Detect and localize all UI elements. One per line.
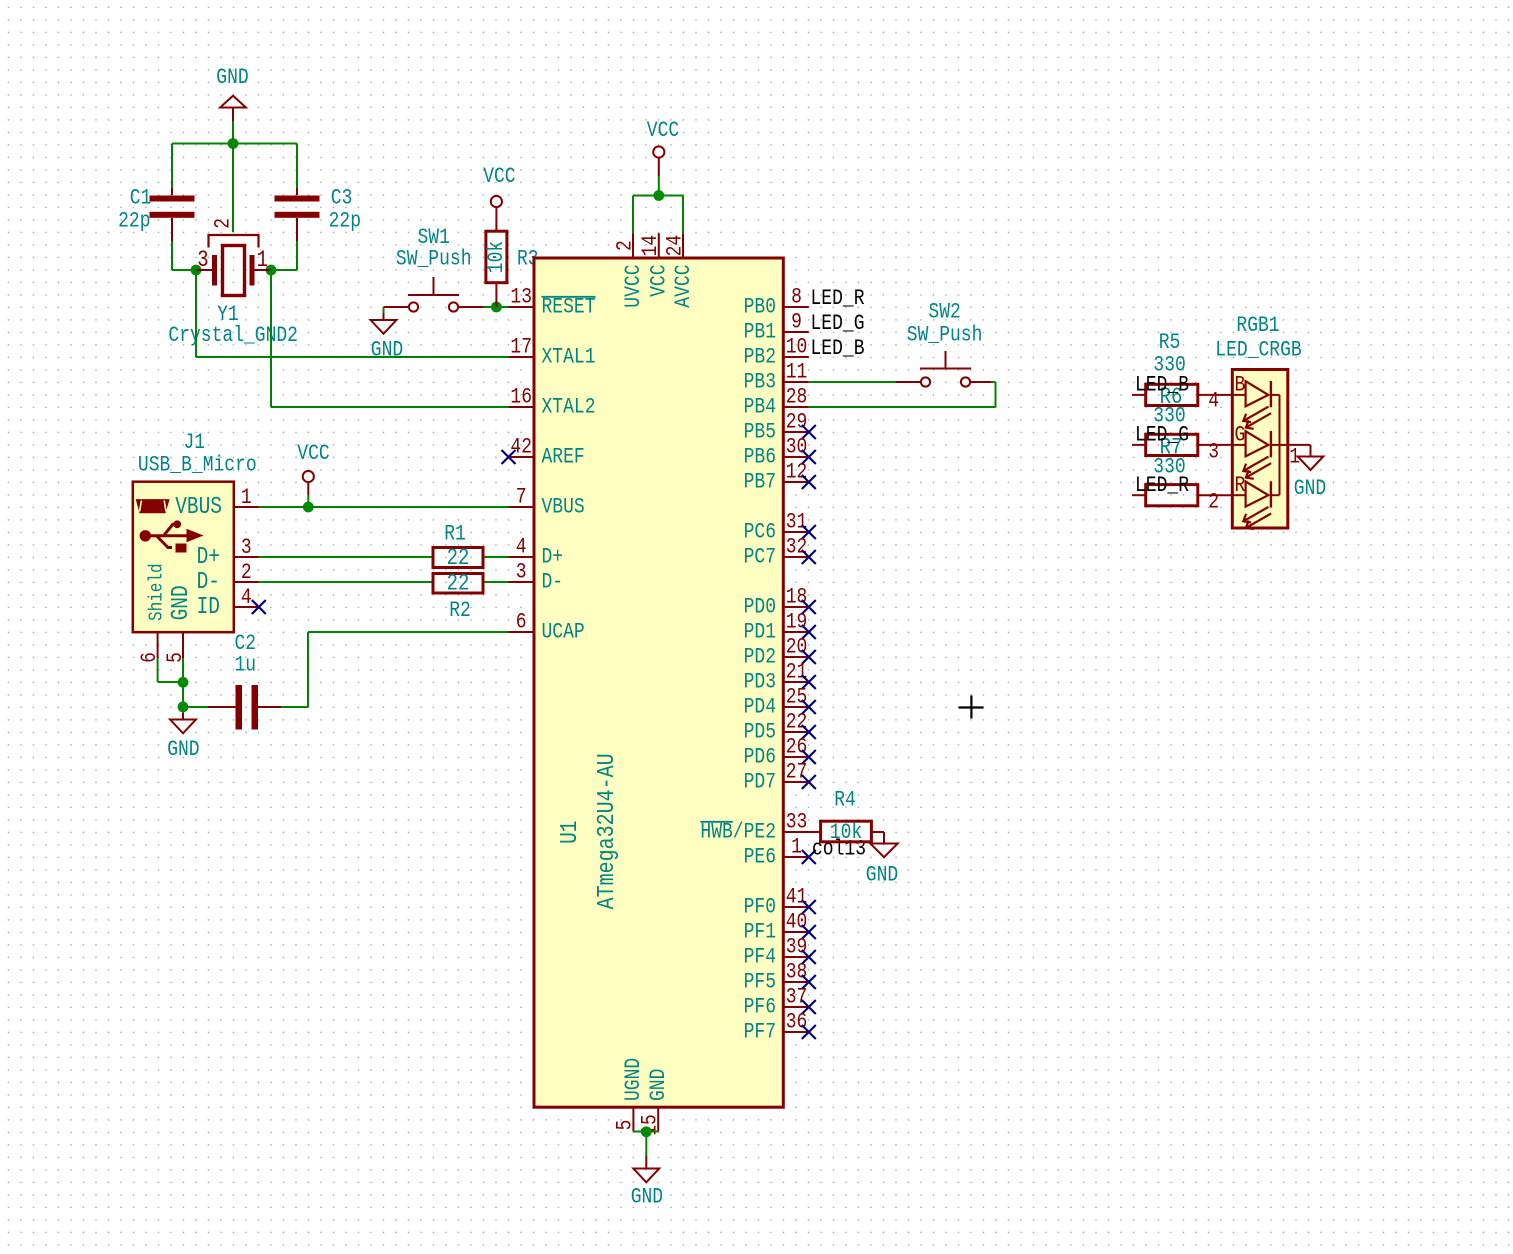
svg-text:17: 17 xyxy=(510,335,532,360)
svg-text:1: 1 xyxy=(257,247,268,273)
svg-text:PD4: PD4 xyxy=(744,695,776,720)
svg-text:2: 2 xyxy=(1208,490,1219,515)
svg-text:GND: GND xyxy=(168,585,195,620)
svg-text:R1: R1 xyxy=(444,522,466,547)
svg-text:3: 3 xyxy=(197,247,208,273)
svg-text:PB7: PB7 xyxy=(744,470,776,495)
svg-text:22: 22 xyxy=(447,545,470,571)
svg-text:SW_Push: SW_Push xyxy=(396,247,472,272)
svg-text:PD5: PD5 xyxy=(744,720,776,745)
svg-text:D-: D- xyxy=(542,570,564,595)
svg-text:28: 28 xyxy=(786,385,808,410)
svg-text:PD6: PD6 xyxy=(744,745,776,770)
svg-text:PD0: PD0 xyxy=(744,595,776,620)
svg-text:GND: GND xyxy=(646,1069,671,1101)
svg-text:RESET: RESET xyxy=(542,295,596,320)
svg-text:2: 2 xyxy=(241,560,252,585)
svg-text:UCAP: UCAP xyxy=(542,620,585,645)
svg-text:VCC: VCC xyxy=(647,118,679,143)
svg-text:GND: GND xyxy=(167,737,199,762)
svg-text:11: 11 xyxy=(786,360,808,385)
svg-text:PB1: PB1 xyxy=(744,320,776,345)
svg-text:GND: GND xyxy=(1294,476,1326,501)
svg-text:PD3: PD3 xyxy=(744,670,776,695)
svg-text:26: 26 xyxy=(786,735,808,760)
svg-text:3: 3 xyxy=(241,535,252,560)
svg-text:20: 20 xyxy=(786,635,808,660)
svg-text:LED_B: LED_B xyxy=(1135,373,1189,398)
svg-text:22p: 22p xyxy=(118,209,150,234)
svg-text:RGB1: RGB1 xyxy=(1236,313,1279,338)
svg-text:XTAL1: XTAL1 xyxy=(542,345,596,370)
svg-text:7: 7 xyxy=(516,485,527,510)
svg-text:PC7: PC7 xyxy=(744,545,776,570)
svg-text:22: 22 xyxy=(447,571,470,597)
svg-text:R5: R5 xyxy=(1159,330,1181,355)
svg-text:10k: 10k xyxy=(484,241,509,273)
svg-text:27: 27 xyxy=(786,760,808,785)
svg-text:2: 2 xyxy=(612,240,637,251)
svg-text:21: 21 xyxy=(786,660,808,685)
svg-text:PF5: PF5 xyxy=(744,970,776,995)
svg-text:PF7: PF7 xyxy=(744,1020,776,1045)
svg-text:5: 5 xyxy=(163,652,188,663)
svg-text:B: B xyxy=(1235,373,1246,398)
svg-text:4: 4 xyxy=(241,585,252,610)
svg-text:D+: D+ xyxy=(197,544,220,571)
svg-text:4: 4 xyxy=(1208,389,1219,414)
svg-text:1: 1 xyxy=(791,835,802,860)
svg-text:PB2: PB2 xyxy=(744,345,776,370)
svg-text:USB_B_Micro: USB_B_Micro xyxy=(138,453,257,478)
svg-text:38: 38 xyxy=(786,960,808,985)
svg-text:PF1: PF1 xyxy=(744,920,776,945)
svg-text:32: 32 xyxy=(786,535,808,560)
svg-text:C1: C1 xyxy=(130,186,152,211)
svg-text:VCC: VCC xyxy=(483,164,515,189)
svg-text:8: 8 xyxy=(791,285,802,310)
svg-text:VBUS: VBUS xyxy=(542,495,585,520)
svg-text:R: R xyxy=(1235,473,1246,498)
svg-text:14: 14 xyxy=(638,235,663,257)
svg-text:PB6: PB6 xyxy=(744,445,776,470)
svg-text:PB4: PB4 xyxy=(744,395,776,420)
svg-text:18: 18 xyxy=(786,585,808,610)
svg-text:C3: C3 xyxy=(331,186,353,211)
svg-text:UVCC: UVCC xyxy=(621,265,646,308)
svg-text:G: G xyxy=(1235,423,1246,448)
svg-text:PB3: PB3 xyxy=(744,370,776,395)
svg-text:R2: R2 xyxy=(449,598,471,623)
svg-text:LED_B: LED_B xyxy=(811,336,865,361)
svg-text:PB5: PB5 xyxy=(744,420,776,445)
svg-text:PF0: PF0 xyxy=(744,895,776,920)
svg-text:R4: R4 xyxy=(834,787,856,812)
svg-text:PD7: PD7 xyxy=(744,770,776,795)
svg-text:42: 42 xyxy=(510,435,532,460)
svg-text:40: 40 xyxy=(786,910,808,935)
svg-text:GND: GND xyxy=(371,338,403,363)
svg-text:9: 9 xyxy=(791,310,802,335)
svg-text:1u: 1u xyxy=(235,653,257,678)
svg-text:22: 22 xyxy=(786,710,808,735)
svg-text:PD1: PD1 xyxy=(744,620,776,645)
svg-text:LED_G: LED_G xyxy=(811,311,865,336)
svg-text:30: 30 xyxy=(786,435,808,460)
svg-text:U1: U1 xyxy=(557,821,584,844)
svg-text:Shield: Shield xyxy=(146,563,168,621)
svg-text:16: 16 xyxy=(510,385,532,410)
svg-text:10: 10 xyxy=(786,335,808,360)
svg-text:39: 39 xyxy=(786,935,808,960)
svg-text:25: 25 xyxy=(786,685,808,710)
svg-text:36: 36 xyxy=(786,1010,808,1035)
svg-text:PC6: PC6 xyxy=(744,520,776,545)
svg-text:SW2: SW2 xyxy=(928,300,960,325)
svg-text:GND: GND xyxy=(866,863,898,888)
svg-text:XTAL2: XTAL2 xyxy=(542,395,596,420)
svg-text:PD2: PD2 xyxy=(744,645,776,670)
svg-text:1: 1 xyxy=(241,485,252,510)
svg-text:5: 5 xyxy=(613,1120,638,1131)
svg-text:ATmega32U4-AU: ATmega32U4-AU xyxy=(594,753,621,909)
svg-text:D+: D+ xyxy=(542,545,564,570)
svg-text:LED_R: LED_R xyxy=(1135,473,1189,498)
svg-text:PF4: PF4 xyxy=(744,945,776,970)
svg-text:37: 37 xyxy=(786,985,808,1010)
svg-text:19: 19 xyxy=(786,610,808,635)
svg-text:LED_R: LED_R xyxy=(811,286,865,311)
svg-text:HWB/PE2: HWB/PE2 xyxy=(700,820,776,845)
svg-text:3: 3 xyxy=(1208,440,1219,465)
svg-text:GND: GND xyxy=(631,1185,663,1210)
svg-text:13: 13 xyxy=(510,285,532,310)
svg-text:2: 2 xyxy=(211,218,236,229)
svg-text:33: 33 xyxy=(786,810,808,835)
svg-text:J1: J1 xyxy=(184,430,206,455)
svg-text:LED_G: LED_G xyxy=(1135,423,1189,448)
svg-text:12: 12 xyxy=(786,460,808,485)
svg-text:3: 3 xyxy=(516,560,527,585)
svg-text:LED_CRGB: LED_CRGB xyxy=(1215,338,1301,363)
svg-text:29: 29 xyxy=(786,410,808,435)
svg-text:GND: GND xyxy=(216,65,248,90)
svg-text:AVCC: AVCC xyxy=(671,265,696,308)
svg-text:6: 6 xyxy=(516,610,527,635)
svg-text:4: 4 xyxy=(516,535,527,560)
svg-text:PB0: PB0 xyxy=(744,295,776,320)
svg-text:VBUS: VBUS xyxy=(175,494,222,521)
svg-text:24: 24 xyxy=(662,235,687,257)
svg-text:PE6: PE6 xyxy=(744,845,776,870)
svg-text:22p: 22p xyxy=(329,209,361,234)
svg-text:UGND: UGND xyxy=(621,1058,646,1101)
svg-text:SW_Push: SW_Push xyxy=(907,323,983,348)
svg-text:31: 31 xyxy=(786,510,808,535)
svg-text:Crystal_GND2: Crystal_GND2 xyxy=(168,323,298,348)
svg-text:VCC: VCC xyxy=(647,265,672,297)
svg-text:AREF: AREF xyxy=(542,445,585,470)
svg-text:PF6: PF6 xyxy=(744,995,776,1020)
svg-text:D-: D- xyxy=(197,569,220,596)
svg-text:ID: ID xyxy=(197,594,220,621)
svg-text:41: 41 xyxy=(786,885,808,910)
svg-text:10k: 10k xyxy=(830,820,862,845)
svg-text:VCC: VCC xyxy=(297,441,329,466)
